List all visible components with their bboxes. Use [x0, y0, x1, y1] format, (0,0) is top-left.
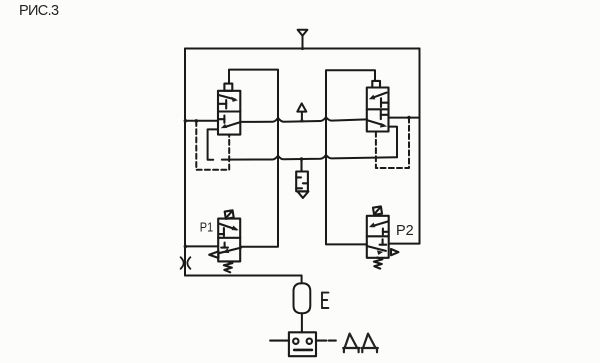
wire line1 middle with hops — [240, 117, 366, 122]
wire line1 right — [389, 117, 420, 119]
wire pilot V2-P2 — [326, 70, 375, 244]
intake atmosphere symbol — [297, 103, 306, 121]
coupling symbol — [181, 257, 191, 269]
wire line2 with hooks and hops — [208, 127, 397, 160]
wire right branch — [419, 49, 421, 244]
wire accumulator to sensor — [301, 313, 303, 332]
svg-text:Р1: Р1 — [200, 220, 214, 235]
valve P2 — [367, 206, 399, 268]
pressure sensor ДД — [270, 332, 336, 356]
wire to accumulator — [185, 276, 302, 284]
label Е — [322, 293, 328, 308]
valve V1 — [218, 84, 240, 135]
vent symbol top — [298, 30, 308, 49]
valve P1 — [209, 210, 241, 272]
wire left branch — [184, 49, 186, 276]
dashed pilot loop right — [376, 118, 409, 168]
label ДД — [343, 334, 378, 353]
svg-text:Р2: Р2 — [396, 223, 414, 239]
valve V2 — [367, 81, 389, 132]
node line1 pilot tap right — [407, 116, 411, 120]
silencer — [296, 159, 308, 198]
node intake junction — [300, 119, 303, 122]
wire line1 left — [185, 120, 218, 122]
accumulator E — [294, 283, 311, 313]
node line1 left junction — [184, 119, 188, 123]
dashed pilot loop left — [196, 121, 229, 170]
wire P2 feed right — [389, 243, 420, 245]
wire P1 feed left — [185, 245, 218, 247]
wire top bus — [185, 48, 420, 50]
wire pilot V1-P1 — [229, 70, 278, 247]
node top vent junction — [301, 47, 304, 50]
node line2 silencer junction — [300, 157, 304, 161]
svg-text:РИС.3: РИС.3 — [19, 3, 59, 19]
node P1 junction — [184, 245, 188, 249]
node line1 pilot tap left — [195, 119, 199, 123]
